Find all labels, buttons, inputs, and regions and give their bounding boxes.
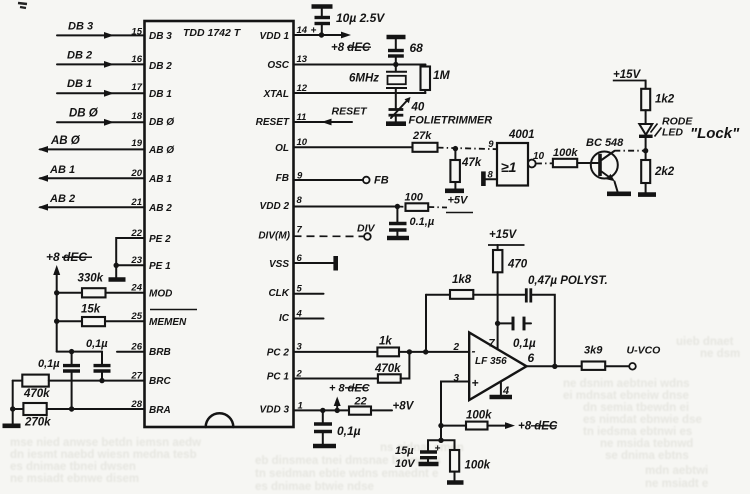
svg-text:0,1µ: 0,1µ	[337, 424, 361, 438]
svg-text:6MHz: 6MHz	[349, 73, 379, 85]
svg-text:DB Ø: DB Ø	[69, 108, 99, 120]
svg-text:+5V: +5V	[448, 195, 470, 207]
svg-text:FOLIETRIMMER: FOLIETRIMMER	[409, 115, 493, 127]
svg-text:270k: 270k	[24, 417, 51, 429]
svg-text:470k: 470k	[23, 388, 50, 400]
svg-text:es nimdat ebnwie dse: es nimdat ebnwie dse	[583, 414, 702, 426]
svg-text:es dnimae btwie ndse: es dnimae btwie ndse	[255, 481, 374, 493]
svg-text:0,47µ POLYST.: 0,47µ POLYST.	[528, 275, 608, 287]
svg-text:es dnimae tbnei dwsen: es dnimae tbnei dwsen	[10, 461, 136, 473]
svg-text:0.1,µ: 0.1,µ	[410, 216, 435, 228]
svg-text:LF 356: LF 356	[475, 356, 507, 367]
svg-text:1k8: 1k8	[452, 274, 472, 286]
svg-text:+ 8 dEC: + 8 dEC	[329, 383, 371, 395]
svg-text:40: 40	[411, 102, 425, 114]
svg-text:ei mdnsat ebneiw dnse: ei mdnsat ebneiw dnse	[563, 390, 689, 402]
svg-text:RESET: RESET	[332, 106, 369, 118]
svg-text:ne dsm: ne dsm	[700, 348, 740, 360]
svg-text:XTAL: XTAL	[263, 89, 289, 100]
svg-text:DB 3: DB 3	[149, 31, 172, 42]
svg-text:PE 1: PE 1	[149, 261, 171, 272]
svg-text:470k: 470k	[374, 363, 401, 375]
svg-text:DB 2: DB 2	[67, 50, 92, 62]
svg-text:PC 2: PC 2	[267, 348, 290, 359]
svg-text:uieb dnaet: uieb dnaet	[676, 336, 734, 348]
svg-text:PC 1: PC 1	[267, 372, 290, 383]
svg-text:6: 6	[528, 351, 535, 365]
svg-text:+: +	[472, 376, 479, 390]
svg-text:LED: LED	[662, 127, 683, 139]
svg-text:OL: OL	[275, 143, 289, 154]
svg-text:+8 dEC: +8 dEC	[518, 421, 558, 433]
svg-text:se dnima ebtns: se dnima ebtns	[605, 450, 689, 462]
svg-text:dn semia tbewdn ei: dn semia tbewdn ei	[583, 402, 689, 414]
svg-text:VSS: VSS	[269, 259, 289, 270]
svg-text:IC: IC	[279, 313, 290, 324]
svg-text:19: 19	[131, 138, 142, 149]
svg-text:AB 1: AB 1	[49, 164, 75, 176]
svg-text:13: 13	[297, 54, 308, 65]
svg-text:-: -	[472, 344, 476, 358]
svg-text:OSC: OSC	[267, 60, 289, 71]
svg-text:0,1µ: 0,1µ	[38, 358, 60, 370]
svg-text:VDD 3: VDD 3	[260, 405, 290, 416]
svg-text:2: 2	[452, 342, 459, 353]
svg-text:AB 1: AB 1	[148, 174, 172, 185]
svg-text:0,1µ: 0,1µ	[86, 338, 108, 350]
svg-text:10µ 2.5V: 10µ 2.5V	[336, 11, 385, 25]
svg-text:3: 3	[297, 342, 303, 353]
svg-text:10: 10	[533, 151, 545, 162]
svg-text:DB Ø: DB Ø	[149, 117, 175, 128]
svg-text:+15V: +15V	[613, 69, 642, 81]
svg-text:U-VCO: U-VCO	[627, 345, 661, 357]
svg-text:AB Ø: AB Ø	[148, 145, 175, 156]
svg-text:DIV(M): DIV(M)	[258, 231, 290, 242]
svg-text:1M: 1M	[433, 68, 451, 82]
svg-text:0,1µ: 0,1µ	[513, 338, 536, 350]
svg-text:+8 dEC: +8 dEC	[331, 42, 371, 54]
svg-text:+: +	[435, 444, 441, 455]
svg-text:17: 17	[131, 82, 142, 93]
svg-text:7: 7	[297, 225, 303, 236]
svg-text:AB Ø: AB Ø	[50, 135, 81, 147]
svg-text:VDD 1: VDD 1	[260, 31, 290, 42]
svg-text:18: 18	[131, 111, 142, 122]
svg-text:BC 548: BC 548	[586, 137, 624, 149]
svg-text:+: +	[311, 26, 317, 37]
svg-text:1k2: 1k2	[655, 94, 675, 106]
svg-text:VDD 2: VDD 2	[260, 201, 290, 212]
svg-text:47k: 47k	[461, 157, 482, 169]
svg-text:22: 22	[354, 396, 367, 408]
svg-text:AB 2: AB 2	[49, 193, 75, 205]
svg-text:ne msiadt ebnwe disem: ne msiadt ebnwe disem	[10, 473, 139, 485]
svg-text:100k: 100k	[465, 460, 491, 472]
svg-text:ne msiadt e: ne msiadt e	[645, 478, 708, 490]
svg-text:ne msida tebnwd: ne msida tebnwd	[600, 438, 693, 450]
svg-text:DB 3: DB 3	[68, 21, 93, 33]
svg-text:FB: FB	[374, 175, 389, 187]
svg-text:≥1: ≥1	[501, 159, 517, 175]
svg-text:TDD 1742 T: TDD 1742 T	[183, 27, 242, 39]
svg-text:27k: 27k	[412, 130, 432, 142]
svg-text:100: 100	[405, 192, 424, 204]
svg-text:CLK: CLK	[268, 288, 289, 299]
svg-text:16: 16	[131, 54, 142, 65]
svg-text:8: 8	[488, 170, 494, 181]
svg-text:MOD: MOD	[149, 289, 172, 300]
svg-text:7: 7	[489, 338, 496, 350]
svg-text:1k: 1k	[379, 336, 392, 348]
svg-text:DIV: DIV	[357, 223, 376, 235]
svg-text:PE 2: PE 2	[149, 234, 171, 245]
svg-text:FB: FB	[276, 173, 289, 184]
svg-text:4001: 4001	[508, 129, 535, 141]
svg-text:DB 2: DB 2	[149, 61, 172, 72]
svg-text:68: 68	[410, 41, 424, 55]
svg-text:BRB: BRB	[149, 347, 171, 358]
svg-text:9: 9	[488, 139, 494, 150]
svg-text:8: 8	[297, 195, 303, 206]
svg-text:100k: 100k	[553, 147, 578, 159]
svg-text:3k9: 3k9	[584, 345, 603, 357]
svg-text:mse nied anwse betdn iemsn aed: mse nied anwse betdn iemsn aedw	[10, 437, 201, 449]
svg-text:MEMEN: MEMEN	[149, 317, 187, 328]
svg-text:15µ: 15µ	[395, 445, 414, 457]
svg-text:RESET: RESET	[256, 117, 290, 128]
svg-text:BRC: BRC	[149, 376, 171, 387]
svg-text:+15V: +15V	[489, 229, 518, 241]
svg-text:100k: 100k	[466, 410, 492, 422]
svg-text:BRA: BRA	[149, 405, 171, 416]
svg-text:DB 1: DB 1	[67, 78, 92, 90]
svg-text:330k: 330k	[78, 273, 104, 285]
svg-text:15k: 15k	[81, 304, 101, 316]
svg-text:2k2: 2k2	[654, 166, 675, 178]
svg-text:10V: 10V	[395, 458, 416, 470]
svg-text:+8V: +8V	[393, 401, 415, 413]
svg-text:tn iedsma ebtnwi es: tn iedsma ebtnwi es	[583, 426, 692, 438]
svg-text:AB 2: AB 2	[148, 203, 172, 214]
svg-text:ne dsnim aebtnei wdns: ne dsnim aebtnei wdns	[563, 378, 690, 390]
svg-text:dn iesmt naebd wiesn medna tes: dn iesmt naebd wiesn medna tesb	[10, 449, 197, 461]
svg-text:mdn aebtwi: mdn aebtwi	[645, 465, 708, 477]
svg-text:"Lock": "Lock"	[690, 125, 740, 142]
svg-text:470: 470	[507, 259, 528, 271]
svg-text:DB 1: DB 1	[149, 89, 172, 100]
